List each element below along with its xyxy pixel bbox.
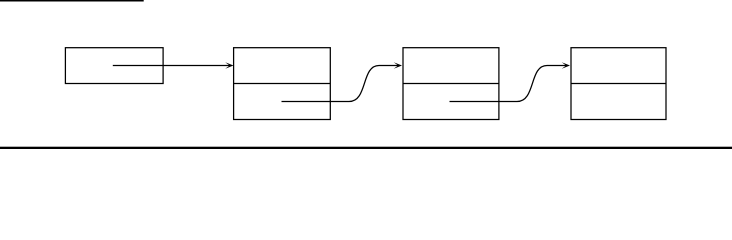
arrow A1 head	[225, 62, 233, 68]
box N2 (node 2, two cells)	[403, 48, 499, 120]
box N3 divider	[571, 83, 666, 85]
arrow A1 shaft (head pointer to node N1)	[113, 65, 230, 67]
wire W1 (node 1 next-pointer S-curve)	[282, 66, 399, 102]
top rule (short thick bar, top-left)	[0, 0, 144, 2]
box P1 (head pointer, single cell)	[65, 48, 163, 84]
wire W2 (node 2 next-pointer S-curve)	[450, 66, 567, 102]
box N1 (node 1, two cells)	[234, 48, 331, 120]
bottom rule (full width)	[0, 147, 732, 149]
box N3 (node 3, two cells)	[571, 48, 666, 120]
arrow A3 head	[562, 62, 570, 68]
box N2 divider	[403, 83, 499, 85]
box N1 divider	[234, 83, 331, 85]
arrow A2 head	[394, 62, 402, 68]
